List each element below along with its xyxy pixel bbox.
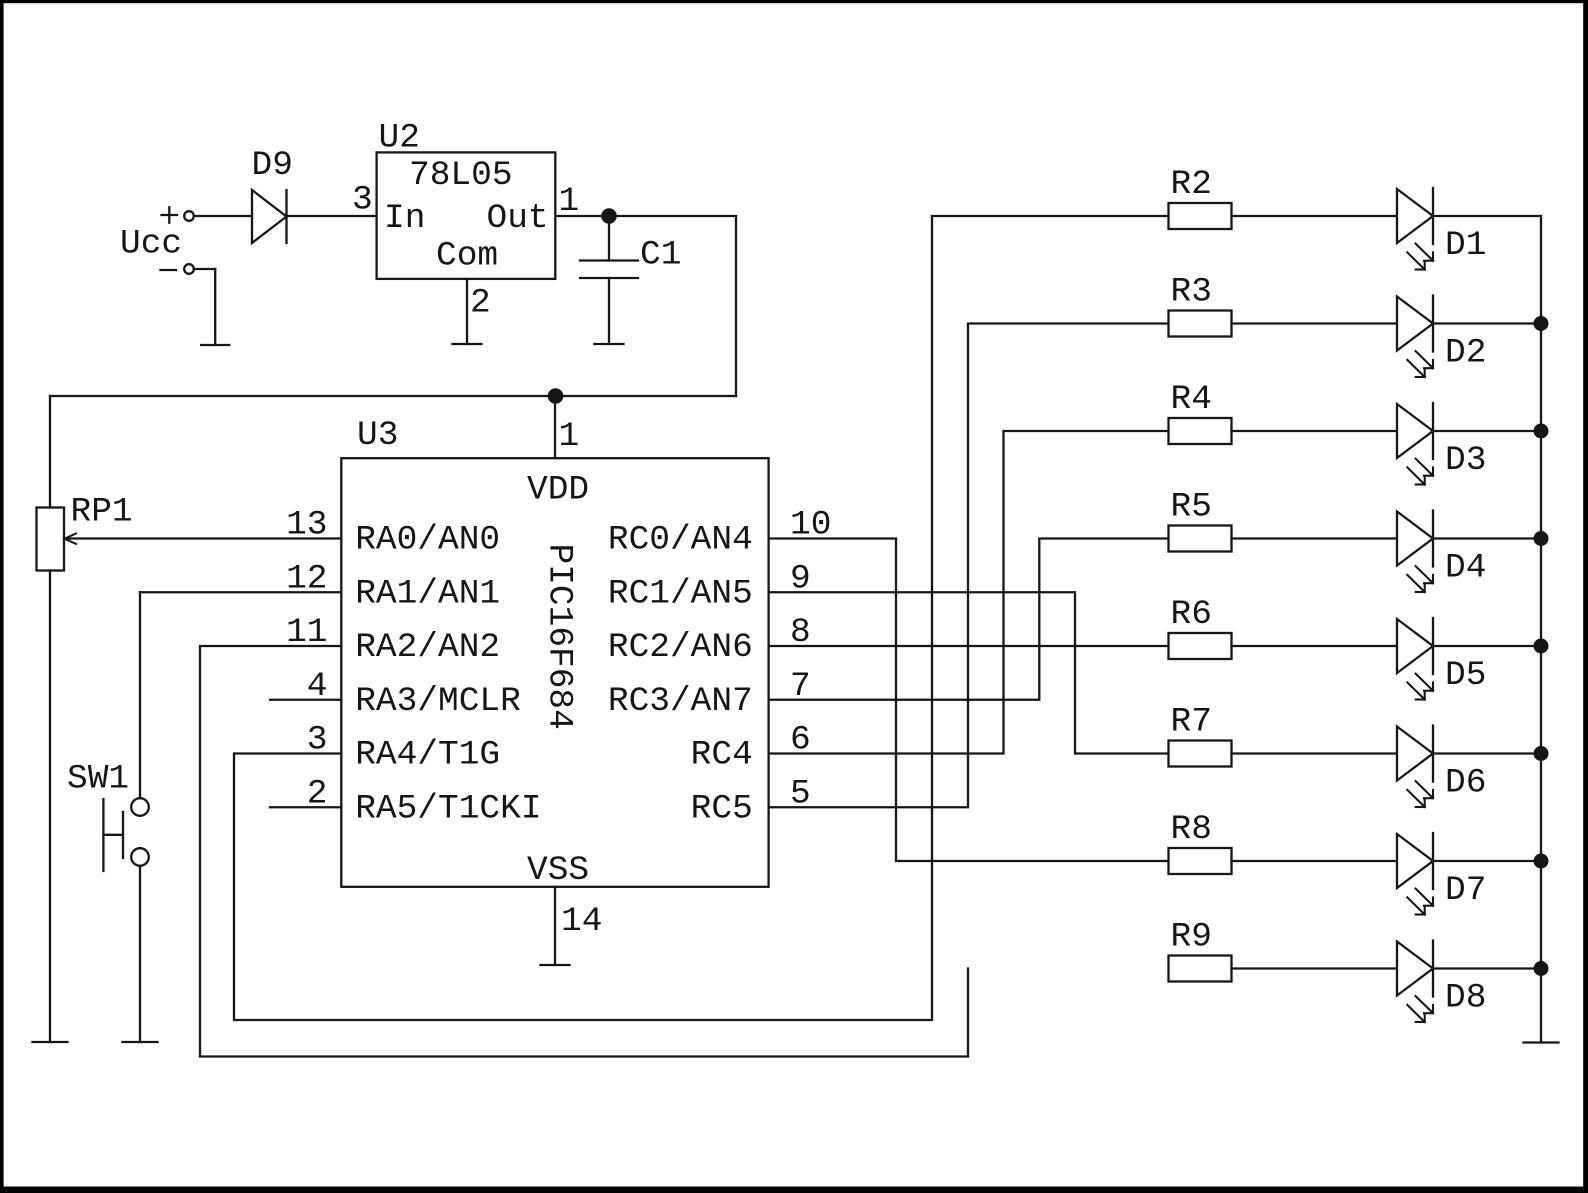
resistor R5 [1169, 488, 1232, 552]
svg-text:R8: R8 [1171, 810, 1212, 849]
wire [1433, 752, 1541, 754]
svg-text:C1: C1 [640, 235, 681, 274]
wire [270, 699, 341, 701]
svg-text:14: 14 [561, 902, 602, 941]
svg-text:RC5: RC5 [691, 789, 753, 828]
ground [541, 964, 570, 966]
svg-text:D9: D9 [252, 146, 293, 185]
wire [1232, 322, 1398, 324]
wire [555, 215, 736, 217]
diode D9 [252, 146, 293, 243]
junction [601, 208, 617, 224]
wire RC3 to R5 [769, 539, 1169, 700]
potentiometer RP1 [37, 493, 133, 571]
svg-text:RC1/AN5: RC1/AN5 [608, 574, 753, 613]
junction [1534, 961, 1549, 976]
svg-text:R2: R2 [1171, 165, 1212, 204]
wire [214, 269, 216, 345]
ground [453, 343, 482, 345]
svg-text:3: 3 [352, 181, 373, 220]
wire [1232, 752, 1398, 754]
wire [1433, 215, 1541, 217]
svg-text:D3: D3 [1445, 441, 1486, 480]
svg-text:In: In [384, 199, 425, 238]
svg-text:D5: D5 [1445, 656, 1486, 695]
resistor R9 [1169, 918, 1232, 982]
wire [1433, 430, 1541, 432]
svg-text:R9: R9 [1171, 918, 1212, 957]
resistor R3 [1169, 273, 1232, 337]
svg-text:RC3/AN7: RC3/AN7 [608, 682, 753, 721]
wire RA4 to R2 [234, 216, 932, 1020]
wire [1232, 215, 1398, 217]
bus wire [1540, 216, 1542, 1043]
wire [287, 215, 377, 217]
wire [554, 887, 556, 965]
junction [1534, 531, 1549, 546]
junction [1534, 746, 1549, 761]
wire [466, 279, 468, 344]
wire [139, 866, 141, 1042]
svg-text:RA3/MCLR: RA3/MCLR [355, 682, 521, 721]
svg-text:R7: R7 [1171, 703, 1212, 742]
svg-text:R6: R6 [1171, 595, 1212, 634]
resistor R7 [1169, 703, 1232, 767]
wire [735, 216, 737, 396]
svg-text:D6: D6 [1445, 764, 1486, 803]
svg-text:RP1: RP1 [71, 493, 133, 532]
svg-text:RC2/AN6: RC2/AN6 [608, 628, 753, 667]
LED D4 [1397, 511, 1486, 593]
svg-text:PIC16F684: PIC16F684 [540, 544, 579, 730]
resistor R8 [1169, 810, 1232, 874]
wire [1232, 430, 1398, 432]
svg-text:78L05: 78L05 [409, 156, 513, 195]
wire [1433, 967, 1541, 969]
wire [139, 592, 141, 798]
svg-text:1: 1 [559, 417, 580, 456]
wire [270, 806, 341, 808]
resistor R4 [1169, 380, 1232, 444]
wire [49, 571, 51, 1043]
wire [1232, 860, 1398, 862]
svg-text:D1: D1 [1445, 226, 1486, 265]
LED D3 [1397, 403, 1486, 485]
ground [201, 344, 229, 346]
ground [33, 1041, 68, 1043]
terminal Ucc + [162, 207, 194, 222]
wire [1232, 645, 1398, 647]
ground [123, 1041, 158, 1043]
terminal Ucc - [161, 264, 194, 274]
svg-text:RA5/T1CKI: RA5/T1CKI [355, 789, 541, 828]
svg-text:D8: D8 [1445, 979, 1486, 1018]
wire RA2 to R9 [200, 646, 968, 1057]
wire [194, 215, 252, 217]
wire [1433, 860, 1541, 862]
IC U3 PIC16F684 [341, 416, 768, 890]
svg-text:SW1: SW1 [67, 759, 129, 798]
wire [65, 537, 342, 539]
wire [1232, 537, 1398, 539]
svg-text:Com: Com [436, 237, 498, 276]
svg-text:Out: Out [487, 199, 549, 238]
wire [140, 591, 341, 593]
svg-text:RA2/AN2: RA2/AN2 [355, 628, 500, 667]
svg-text:RC0/AN4: RC0/AN4 [608, 521, 753, 560]
svg-text:R3: R3 [1171, 273, 1212, 312]
svg-text:2: 2 [470, 283, 491, 322]
junction [1534, 639, 1549, 654]
svg-text:R5: R5 [1171, 488, 1212, 527]
LED D1 [1397, 188, 1486, 270]
wire [554, 396, 556, 458]
svg-text:D4: D4 [1445, 549, 1486, 588]
wire RC0 to R8 [769, 539, 1169, 862]
capacitor C1 [580, 216, 681, 344]
svg-text:D7: D7 [1445, 871, 1486, 910]
wire [50, 395, 736, 397]
wire RC2 to R6 [769, 645, 1169, 647]
wire [1433, 322, 1541, 324]
wire [49, 396, 51, 508]
svg-text:VDD: VDD [527, 471, 589, 510]
LED D2 [1397, 296, 1486, 378]
ground [595, 343, 624, 345]
LED D5 [1397, 618, 1486, 700]
LED D6 [1397, 726, 1486, 808]
svg-text:Ucc: Ucc [120, 225, 182, 264]
regulator U2 78L05 [377, 118, 556, 279]
LED D8 [1397, 941, 1486, 1023]
wire RC1 to R7 [769, 592, 1169, 753]
svg-text:RA4/T1G: RA4/T1G [355, 736, 500, 775]
junction [548, 388, 564, 404]
junction [1534, 316, 1549, 331]
junction [1534, 424, 1549, 439]
resistor R6 [1169, 595, 1232, 659]
svg-text:RA0/AN0: RA0/AN0 [355, 521, 500, 560]
svg-text:U3: U3 [357, 416, 398, 455]
wire [932, 215, 1169, 217]
junction [1534, 854, 1549, 869]
wire [1433, 645, 1541, 647]
wire [1232, 967, 1398, 969]
switch SW1 [67, 759, 149, 871]
svg-text:RA1/AN1: RA1/AN1 [355, 574, 500, 613]
wire [194, 268, 215, 270]
svg-text:VSS: VSS [527, 851, 589, 890]
ground [1524, 1041, 1559, 1043]
resistor R2 [1169, 165, 1232, 229]
wire RC4 to R4 [769, 431, 1169, 754]
wire RC5 to R3 [769, 324, 1169, 808]
svg-text:RC4: RC4 [691, 736, 753, 775]
LED D7 [1397, 833, 1486, 915]
wire [1433, 537, 1541, 539]
svg-text:D2: D2 [1445, 334, 1486, 373]
svg-text:R4: R4 [1171, 380, 1212, 419]
